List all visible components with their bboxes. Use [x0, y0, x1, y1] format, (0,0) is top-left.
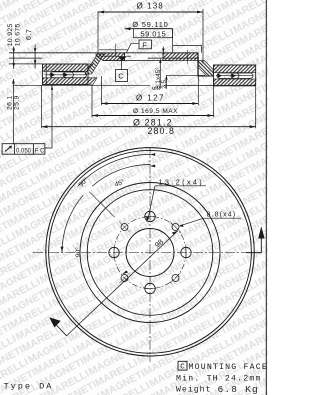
svg-text:90°: 90°	[74, 247, 82, 257]
svg-text:0.050: 0.050	[16, 148, 32, 154]
svg-text:26.1: 26.1	[6, 95, 13, 110]
svg-text:280.8: 280.8	[148, 126, 176, 136]
svg-text:Weight: Weight	[176, 385, 211, 395]
svg-text:Ø 59.110: Ø 59.110	[132, 20, 168, 29]
svg-text:6.7: 6.7	[26, 29, 33, 40]
svg-text:F C: F C	[35, 148, 45, 154]
svg-text:Type DA: Type DA	[4, 381, 54, 391]
svg-text:MIN: MIN	[152, 86, 160, 91]
svg-text:25.9: 25.9	[14, 95, 21, 110]
svg-text:10.675: 10.675	[14, 23, 21, 46]
svg-text:MOUNTING FACE: MOUNTING FACE	[189, 363, 268, 372]
svg-text:C: C	[118, 72, 124, 81]
svg-text:59.015: 59.015	[141, 29, 167, 38]
svg-text:10.925: 10.925	[7, 23, 14, 46]
svg-text:Min. TH 24.2mm: Min. TH 24.2mm	[176, 374, 262, 384]
svg-text:Ø 169.5 MAX: Ø 169.5 MAX	[133, 108, 178, 115]
svg-text:Ø 138: Ø 138	[137, 2, 164, 11]
svg-text:C: C	[180, 364, 185, 372]
svg-text:13.2(x4): 13.2(x4)	[159, 177, 205, 186]
svg-text:8.8(x4): 8.8(x4)	[207, 212, 237, 219]
svg-text:F: F	[142, 40, 147, 49]
svg-text:6.8 Kg: 6.8 Kg	[218, 384, 259, 395]
svg-text:2.5: 2.5	[161, 80, 168, 89]
svg-text:Ø 127: Ø 127	[136, 94, 165, 103]
